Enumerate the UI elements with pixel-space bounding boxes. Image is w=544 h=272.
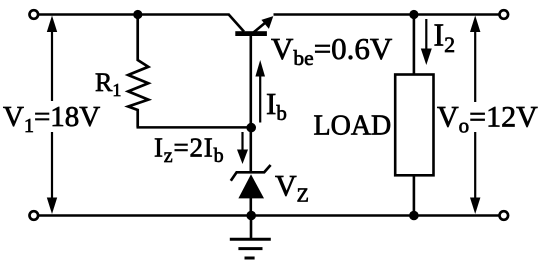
load resistor box: [395, 75, 433, 176]
current arrow Iz (downward): [237, 132, 248, 164]
terminal output negative: [500, 211, 509, 220]
svg-text:Vo=12V: Vo=12V: [437, 101, 538, 138]
wire from R1 bottom to base node: [137, 126, 252, 129]
wire bottom rail: [39, 214, 500, 217]
transistor Q1 (NPN series pass): [229, 14, 274, 127]
V1 measurement arrow (double headed): [47, 16, 57, 215]
svg-text:LOAD: LOAD: [314, 111, 392, 142]
terminal input negative: [30, 211, 39, 220]
node dot at load bottom: [409, 211, 419, 221]
node dot at base/zener junction: [246, 123, 256, 133]
zener diode VZ: [231, 128, 271, 216]
wire top rail right (emitter to output): [274, 13, 500, 16]
wire load bottom lead: [413, 175, 416, 215]
svg-text:Vbe=0.6V: Vbe=0.6V: [271, 31, 393, 70]
node dot at zener bottom / ground: [246, 211, 256, 221]
Vo measurement arrow (double headed): [470, 16, 480, 215]
wire top rail left (input to collector): [39, 13, 230, 16]
node dot at load top: [409, 10, 418, 19]
ground symbol: [230, 216, 271, 259]
node dot at R1 top: [133, 10, 142, 19]
terminal output positive: [500, 10, 509, 19]
svg-text:V1=18V: V1=18V: [3, 101, 100, 137]
label V1=18V: [1, 101, 101, 137]
terminal input positive: [30, 10, 39, 19]
current arrow Ib (upward): [255, 60, 265, 123]
current arrow I2 (downward): [421, 19, 432, 65]
label Vo=12V: [435, 101, 538, 138]
resistor R1: [128, 15, 148, 128]
wire load top lead: [413, 15, 416, 75]
